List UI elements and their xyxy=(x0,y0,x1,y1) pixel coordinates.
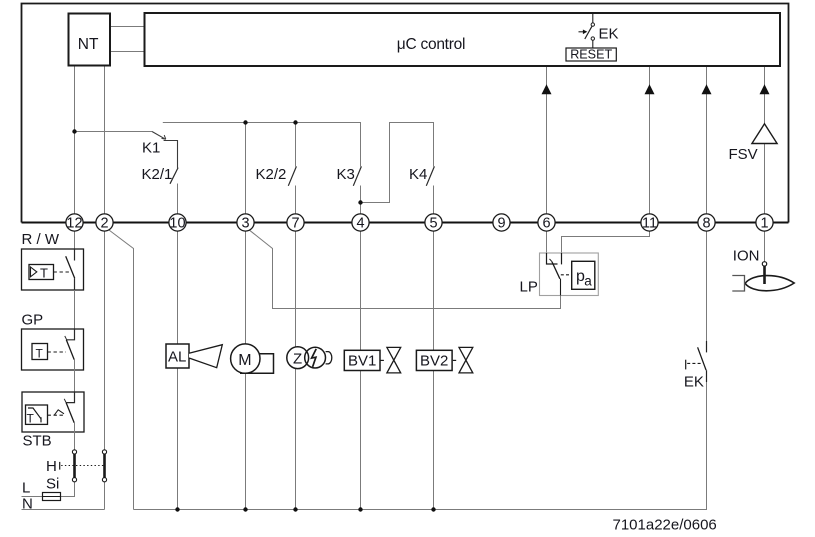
wire neutral return bus bottom xyxy=(134,382,707,510)
plug link H xyxy=(46,450,105,482)
wire terminal 3 branch to LP output xyxy=(249,230,561,309)
terminal bus line xyxy=(22,221,789,223)
svg-text:K2/1: K2/1 xyxy=(142,166,173,183)
svg-text:1: 1 xyxy=(760,215,768,231)
wire terminal 2 diagonal branch xyxy=(108,230,133,510)
svg-text:LP: LP xyxy=(520,279,538,296)
wire K2/2 to terminal 7 xyxy=(295,186,297,215)
svg-text:μC control: μC control xyxy=(397,36,465,53)
op-amp U1 microcontroller box xyxy=(145,13,781,66)
reset button EK external xyxy=(684,341,707,391)
terminal 7 xyxy=(287,214,304,231)
safety limit thermostat STB xyxy=(22,392,84,450)
terminal 2 xyxy=(96,214,113,231)
svg-text:ION: ION xyxy=(733,248,760,265)
wire NT to uC bottom xyxy=(110,51,145,53)
node bus-BV2 junction xyxy=(431,507,435,511)
wire node4 to K4 rail xyxy=(361,123,434,203)
svg-text:R / W: R / W xyxy=(22,231,60,248)
svg-text:EK: EK xyxy=(684,374,704,391)
wire K ladder top rail xyxy=(163,123,361,167)
svg-text:BV2: BV2 xyxy=(420,353,448,370)
svg-text:L: L xyxy=(22,479,30,496)
terminal 5 xyxy=(425,214,442,231)
svg-text:EK: EK xyxy=(599,25,619,42)
svg-text:T: T xyxy=(36,347,44,361)
plug link on N side xyxy=(102,450,106,482)
svg-text:K4: K4 xyxy=(409,166,427,183)
fuel valve BV1 xyxy=(344,347,400,373)
wire K4 to terminal 5 xyxy=(433,186,435,215)
terminal 8 xyxy=(698,214,715,231)
svg-text:11: 11 xyxy=(642,215,657,231)
FSV flame signal symbol xyxy=(729,124,778,163)
wire terminal 4 to BV1 and bottom bus xyxy=(360,231,362,510)
wire N input to link2 xyxy=(22,509,105,511)
node rail-K2/2 junction xyxy=(293,120,297,124)
relay contact K3 xyxy=(353,166,361,185)
wire uC to terminal 8 and EK button xyxy=(706,66,708,341)
wire uC through FSV to terminal 1 and ION xyxy=(764,66,766,262)
air pressure switch LP xyxy=(520,253,599,296)
svg-text:FSV: FSV xyxy=(729,146,758,163)
wire NT right output to terminal 2 and link 2 xyxy=(104,66,106,450)
svg-text:12: 12 xyxy=(66,215,82,231)
wire NT left output to terminal 12 xyxy=(74,66,76,261)
relay contact K1 xyxy=(152,132,178,168)
wire K3 to terminal 4 xyxy=(360,186,362,215)
motor M xyxy=(231,344,274,373)
gas pressure switch GP xyxy=(22,312,84,403)
wire rail drop to terminal 3 xyxy=(245,123,247,215)
wire link2 bottom to N line xyxy=(104,482,106,510)
relay contact K2/2 xyxy=(288,166,296,185)
fuse Si xyxy=(43,476,61,501)
svg-text:T: T xyxy=(27,412,35,426)
svg-text:2: 2 xyxy=(100,215,108,231)
arrows into uC from terminals 6 11 8 1 xyxy=(542,84,770,94)
svg-text:AL: AL xyxy=(168,349,186,366)
node bus-BV1 junction xyxy=(358,507,362,511)
node bus-Z junction xyxy=(293,507,297,511)
node bus-M junction xyxy=(243,507,247,511)
terminal 4 xyxy=(352,214,369,231)
svg-text:9: 9 xyxy=(497,215,505,231)
wire terminal 3 to motor and bottom bus xyxy=(245,231,247,510)
svg-text:3: 3 xyxy=(241,215,249,231)
svg-text:N: N xyxy=(22,495,33,512)
svg-text:10: 10 xyxy=(169,215,185,231)
svg-text:Si: Si xyxy=(46,476,59,493)
node rail-terminal3 junction xyxy=(243,120,247,124)
relay contact K2/1 xyxy=(170,168,178,184)
RESET label box xyxy=(566,48,616,62)
wire fuse to link1 xyxy=(60,482,74,497)
wire rail drop to K2/2 xyxy=(295,123,297,167)
relay contact K4 xyxy=(426,166,434,185)
terminal 1 xyxy=(756,214,773,231)
svg-text:a: a xyxy=(584,273,592,288)
fuel valve BV2 xyxy=(416,347,472,373)
svg-text:RESET: RESET xyxy=(570,48,612,62)
node NT-K1 junction xyxy=(72,129,76,133)
wire NT to uC top xyxy=(110,26,145,28)
terminal 3 xyxy=(237,214,254,231)
outer frame of control unit xyxy=(22,4,789,223)
svg-text:6: 6 xyxy=(542,215,550,231)
terminal 11 xyxy=(641,214,658,231)
svg-text:7101a22e/0606: 7101a22e/0606 xyxy=(613,517,717,534)
terminal 12 xyxy=(66,214,83,231)
svg-text:STB: STB xyxy=(23,433,52,450)
svg-text:5: 5 xyxy=(429,215,437,231)
svg-text:8: 8 xyxy=(702,215,710,231)
svg-text:K1: K1 xyxy=(142,140,160,157)
wire K1 feed from node xyxy=(75,131,153,133)
svg-text:K3: K3 xyxy=(337,166,355,183)
ionisation probe ION xyxy=(732,248,794,292)
svg-text:T: T xyxy=(40,265,48,280)
wire uC to terminal 6 xyxy=(546,66,548,253)
svg-text:BV1: BV1 xyxy=(348,353,376,370)
power supply NT xyxy=(69,14,111,66)
wire terminal 5 to BV2 and bottom bus xyxy=(433,231,435,510)
node K3-K4 junction xyxy=(358,200,362,204)
wire uC to terminal 11 and toward LP xyxy=(562,66,650,253)
wire EK button to bottom bus xyxy=(706,382,708,510)
thermostat R/W xyxy=(22,231,84,340)
alarm AL xyxy=(166,344,222,368)
ignition transformer Z xyxy=(287,347,332,369)
reset button EK inside uC box xyxy=(579,14,595,48)
svg-text:GP: GP xyxy=(22,312,44,329)
wire terminal 10 to alarm and bottom bus xyxy=(177,231,179,510)
svg-text:M: M xyxy=(238,352,251,369)
svg-text:Z: Z xyxy=(293,351,302,368)
svg-text:H: H xyxy=(46,458,57,475)
wire L input to fuse xyxy=(22,496,44,498)
svg-text:K2/2: K2/2 xyxy=(256,166,287,183)
svg-text:7: 7 xyxy=(291,215,299,231)
terminal 10 xyxy=(169,214,186,231)
svg-text:4: 4 xyxy=(356,215,364,231)
wire terminal 7 to ignition and bottom bus xyxy=(295,231,297,510)
node bus-AL junction xyxy=(175,507,179,511)
terminal 6 xyxy=(538,214,555,231)
terminal 9 xyxy=(493,214,510,231)
svg-text:NT: NT xyxy=(78,36,99,53)
